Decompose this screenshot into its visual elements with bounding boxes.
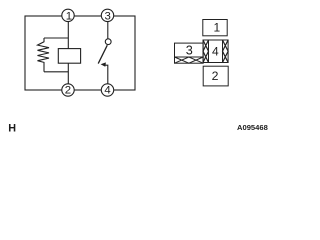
right hatch strip [223,40,229,63]
connector terminal 2 box [203,66,228,86]
body cell 4 [209,40,223,63]
svg-text:4: 4 [212,45,219,59]
svg-text:4: 4 [104,85,110,97]
connector body middle row [203,40,228,63]
connector terminal 1 box [203,20,227,36]
wire from terminal 1 down to coil [67,16,69,49]
switch arrow head [101,62,106,66]
wire terminal 3 down to fixed contact [107,16,109,39]
terminal circle 4 [101,84,113,96]
svg-text:3: 3 [105,11,111,23]
svg-text:1: 1 [66,11,72,23]
svg-text:H: H [8,123,16,135]
connector terminal 3 box [175,43,204,57]
switch fixed contact circle [105,39,111,45]
svg-text:2: 2 [212,69,219,83]
resistor R [38,38,50,72]
terminal circle 1 [62,9,74,21]
terminal circle 3 [101,9,113,21]
switch blade [98,45,107,63]
svg-text:2: 2 [65,85,71,97]
terminal circle 2 [62,84,74,96]
terminal 3 hatch X pattern [175,57,204,63]
wire resistor bottom to main line [44,71,68,73]
wire terminal 4 up to movable contact [105,65,108,90]
svg-text:A095468: A095468 [237,123,268,132]
wire branch to resistor top [44,37,68,39]
relay coil [58,49,80,64]
terminal 3 hatch strip [175,57,204,63]
wire coil bottom to terminal 2 [67,63,69,90]
svg-text:3: 3 [186,44,193,58]
relay outline box [25,16,135,90]
left hatch strip [203,40,209,63]
svg-text:1: 1 [214,21,221,35]
